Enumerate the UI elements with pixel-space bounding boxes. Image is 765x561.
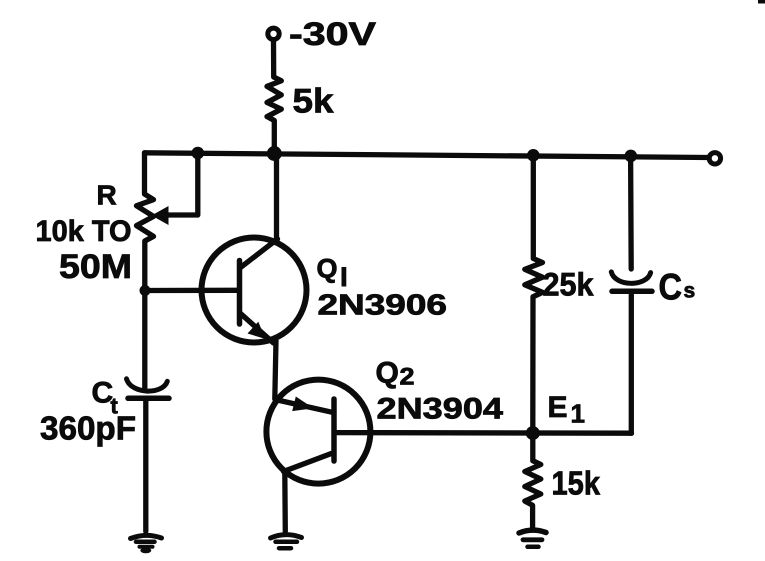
svg-text:-30V: -30V <box>289 16 377 52</box>
svg-text:1: 1 <box>571 399 585 429</box>
svg-text:2N3904: 2N3904 <box>377 393 504 426</box>
svg-text:5k: 5k <box>293 83 334 121</box>
svg-text:10k TO: 10k TO <box>36 215 132 248</box>
svg-text:50M: 50M <box>59 248 132 286</box>
svg-text:E: E <box>548 391 568 424</box>
svg-text:Q: Q <box>317 254 338 284</box>
svg-text:360pF: 360pF <box>40 410 136 447</box>
svg-text:2: 2 <box>400 364 415 391</box>
svg-text:R: R <box>97 180 117 211</box>
svg-text:25k: 25k <box>543 267 594 303</box>
svg-text:s: s <box>684 280 696 303</box>
svg-text:Q: Q <box>376 357 399 390</box>
svg-text:2N3906: 2N3906 <box>318 290 448 322</box>
svg-text:15k: 15k <box>552 465 601 502</box>
svg-text:C: C <box>659 267 683 308</box>
